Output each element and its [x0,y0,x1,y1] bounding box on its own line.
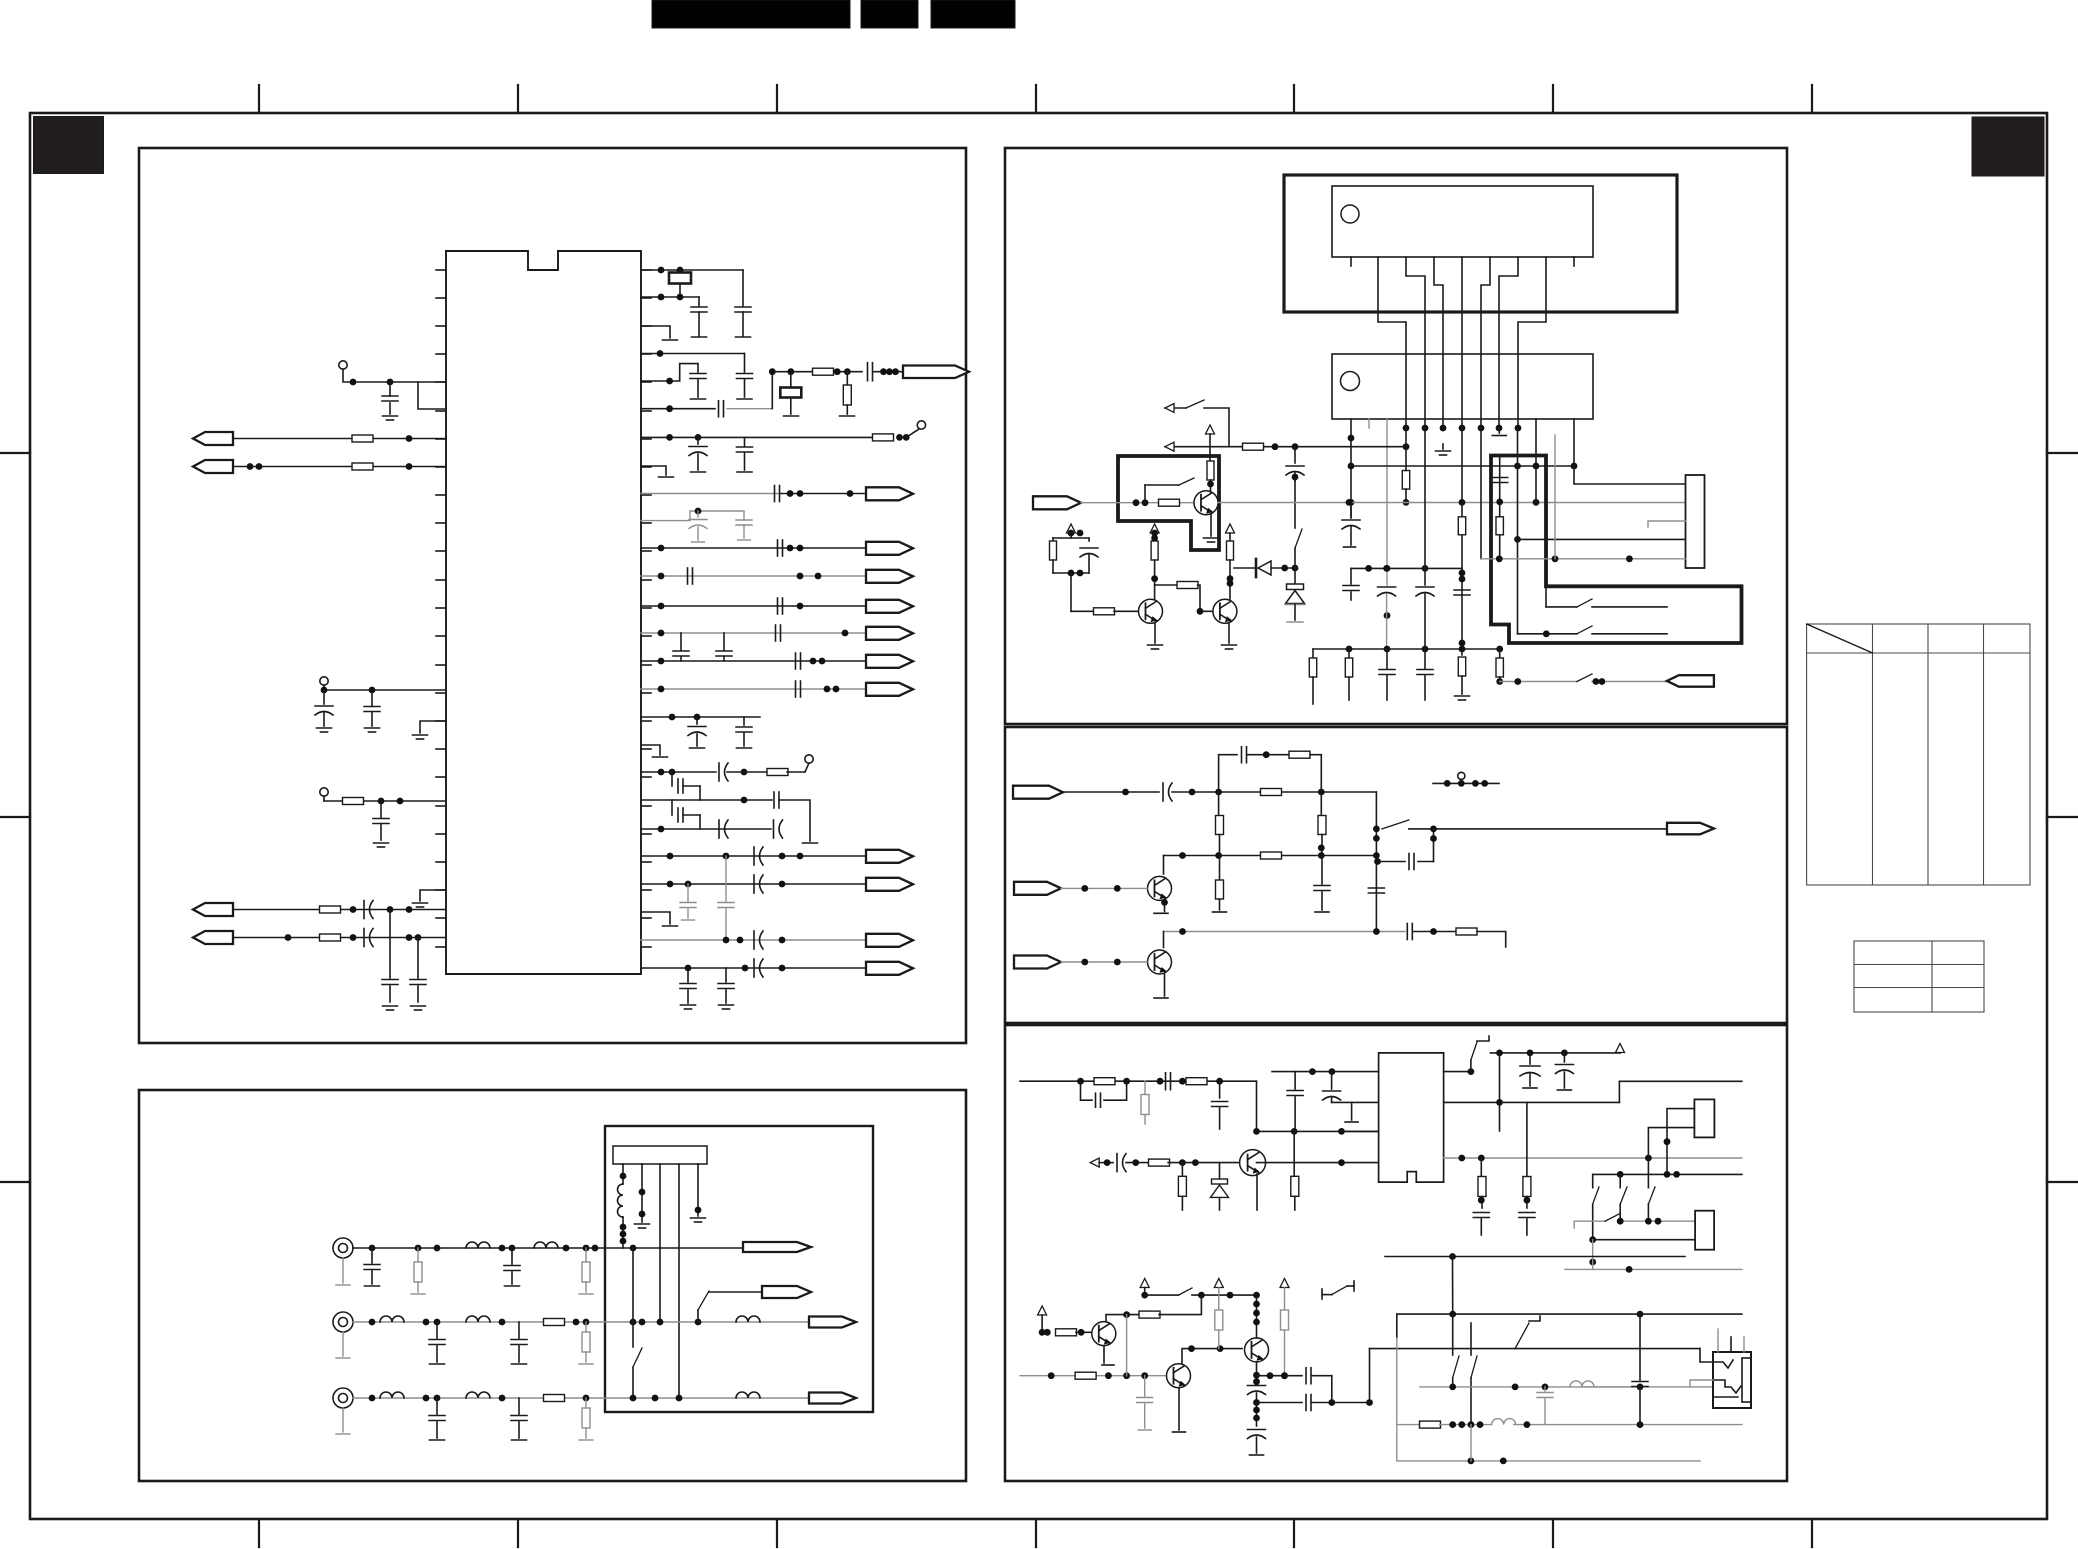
wire CN101 to IC [233,438,446,440]
vertical x1331 [1331,1376,1333,1403]
wire J2 row4 [1518,538,1686,540]
J5 contact zigzag 2 [1713,1380,1741,1393]
supply arrow A3 [1150,524,1159,533]
wire pin row y661 [641,660,866,662]
wire pin4 osc2 [641,353,745,355]
revision table diagonal [1807,624,1873,653]
capacitor C111 [744,354,746,373]
header connector J1 [613,1146,707,1164]
capacitor C503 [1219,1081,1221,1098]
ground U3 pin6 stub [1442,444,1444,449]
capacitor C107 [382,979,398,981]
schematic box right-bottom (regulator / headphone) [1005,1025,1787,1481]
capacitor C127 inter-row [723,633,725,650]
switch S303 vertical [1294,481,1296,528]
wire pin row y689 [641,688,866,690]
wire J3 in1 [1667,1109,1694,1175]
rail y1424 [1397,1424,1420,1426]
inductor L6 row2 out [736,1316,760,1322]
capacitor C304 [1350,568,1352,584]
RCA jack CV2 [333,1312,353,1332]
frame tick top x777 [776,85,778,113]
ground C202 [505,1285,520,1287]
vertical 1470 bottom [1470,1425,1472,1461]
wire Q501 emitter [1256,1174,1258,1210]
connector CN1010 [866,627,913,640]
wire Q402 emitter [1164,974,1166,996]
capacitor C121 series [687,568,689,584]
capacitor C509 [1473,1212,1489,1214]
ground C109 [692,336,707,338]
resistor R404 [1320,792,1322,816]
capacitor C142 [687,968,689,982]
ground R406 [1213,911,1227,913]
U2 pin wire 3 [1406,257,1425,428]
capacitor C403 [1321,856,1323,885]
capacitor C114 series [867,363,869,381]
capacitor C515 series [1305,1395,1307,1411]
wire U4 left pin3 [1342,1130,1379,1132]
U2 pin wire 2 [1378,257,1406,428]
inductor L7 [380,1392,404,1398]
ground R407 [1498,948,1513,950]
wire pin ground stub [420,721,446,733]
capacitor C108 [410,979,426,981]
capacitor C120 series [777,540,779,556]
supply arrow A9 [1280,1279,1289,1288]
capacitor C307 [1454,589,1470,591]
U2 pin stub right [1573,257,1575,266]
supply arrow A8 [1214,1279,1223,1288]
wire CN301 to Q301 [1081,502,1194,504]
IC U3 driver [1332,354,1593,419]
U3 pin 3 wire [1386,419,1388,585]
wire Q504 emitter chain [1256,1362,1258,1382]
U2 pin stub left [1350,257,1352,266]
wire A6 stem [1041,1315,1043,1332]
ground C142 [681,1004,696,1006]
ground C128 [690,747,705,749]
resistor R103 [343,798,364,805]
ground C129 [737,747,752,749]
wire pin7 row [641,436,873,438]
crystal X1 [679,270,681,273]
wire node up [771,372,773,409]
capacitor C406 series [1406,924,1408,940]
resistor R313 [1348,649,1350,658]
wire 1555 column [1554,435,1556,559]
RCA jack CV1 [333,1238,353,1258]
connector CN104 (audio in R) [193,931,233,944]
wire output row D [772,371,862,373]
resistor R202 [585,1248,587,1262]
capacitor C205 [436,1398,438,1414]
inductor L3 [534,1242,558,1248]
resistor R308 [1229,533,1231,541]
switch S305 row [1545,586,1547,607]
resistor R305 series [1071,610,1094,612]
ground CV1 [342,1258,344,1283]
wire CN102 to IC [233,466,446,468]
U2 pin wire 7 [1499,257,1518,428]
resistor R304 [1050,541,1057,560]
capacitor C137 series electrolytic [753,875,755,893]
resistor R204 [585,1322,587,1332]
capacitor C204 [518,1322,520,1338]
collector rail [1257,1130,1379,1132]
ground Q402 [1154,997,1168,999]
inductor L1 vertical [618,1184,624,1217]
wire row4 [1164,931,1406,933]
frame tick right y817 [2047,816,2077,818]
resistor R508 [1526,1102,1528,1176]
capacitor C510 [1519,1212,1535,1214]
ground C403 [1315,911,1329,913]
bottom rail y1461 [1397,1460,1700,1462]
connector CN102 (input) [193,460,233,473]
rail diag to switch [1514,1348,1516,1350]
wire row3 [353,1397,809,1399]
switch S506 vertical [1452,1314,1454,1355]
resistor R205 series [544,1395,565,1402]
frame tick bottom x777 [776,1519,778,1547]
resistor R407 [1456,928,1477,935]
wire C406 to R407 [1413,931,1456,933]
capacitor C136 series electrolytic [753,847,755,865]
transistor Q402 [1148,950,1172,974]
capacitor C404 link [1433,829,1435,862]
long rail y1348 [1370,1348,1516,1350]
U3 index circle [1341,372,1360,391]
frame tick bottom x518 [517,1519,519,1547]
capacitor C105 series electrolytic [363,901,365,919]
capacitor C506 electrolytic [1331,1072,1333,1089]
ground pin21 [413,902,428,904]
highlight polygon H1 (thick outline) [1118,456,1219,550]
wire J2 row2 elbow [1535,466,1537,502]
wire emitter row [1257,1375,1303,1377]
capacitor C119 [743,511,745,519]
test link row [1433,782,1499,784]
ground C103 [365,727,380,729]
ground C139 [682,919,695,921]
connector CN116 [866,962,913,975]
resistor R310 [1458,517,1465,535]
resistor R301 [1243,443,1264,450]
ground C143 [719,1004,734,1006]
wire RC pair top [1070,533,1072,538]
wire A7 row [1144,1288,1146,1296]
switch S202 row1-row3 link [632,1248,634,1347]
wire J4 in2 [1593,1239,1695,1241]
resistor R505 [1181,1163,1183,1177]
resistor R104 [320,906,341,913]
connector CN302 (line out) [1667,675,1714,687]
resistor R303 [1209,456,1211,461]
U3 pin wire to rail 1536 [1535,419,1537,466]
wire pin1 crystal net [641,269,743,271]
resistor R507 [1480,1158,1482,1177]
schematic box left-bottom (AV input filters) [139,1090,966,1481]
wire vertical x726 [725,856,727,901]
frame tick bottom x259 [258,1519,260,1547]
wire pin23 row out [641,883,866,885]
ground Q401 [1154,912,1168,914]
wire pin18 gnd stub [641,745,660,755]
ground C511 [1138,1429,1151,1431]
wire C107 feed [389,910,391,979]
headphone jack J5 [1713,1352,1751,1408]
wire pin5 osc2 [641,364,698,381]
capacitor C115 electrolytic [697,437,699,444]
wire pin21 ground stub [420,890,446,901]
wire row y568 [1351,567,1462,569]
resistor R101 [352,435,373,442]
RCA jack CV3 [333,1388,353,1408]
wire down to R305 [1070,573,1072,611]
wire C505 top [1272,1071,1312,1073]
wire pin25 row out [641,939,866,941]
ground R201 [411,1293,425,1295]
ground C508 [1557,1089,1571,1091]
capacitor C122 series [777,598,779,614]
wire gnd branch [1573,1221,1575,1228]
wire Q301 emitter [1210,512,1212,536]
resistor R405 series [1261,852,1282,859]
wire pin22 row out [641,855,866,857]
wire Q503 emitter [1178,1388,1180,1430]
supply rail y1053 [1490,1052,1620,1054]
wire pin3 ground [641,326,670,338]
wire step to pin9 [418,382,446,409]
switch S401 [1382,820,1409,829]
vertical link x1126 [1126,1315,1128,1376]
capacitor C504 series electrolytic [1116,1154,1118,1172]
J1 pin2 wire [641,1164,643,1222]
capacitor C402 series [1241,747,1243,763]
wire R514 right [1440,1424,1492,1426]
wire to CN302 [1500,681,1577,683]
rail y1314 [1397,1313,1742,1315]
signal arrow in [1090,1158,1099,1167]
wire pin10 bypass net [641,511,744,521]
wire CN104 to IC [233,937,446,939]
resistor R201 [417,1248,419,1262]
inner shield box [605,1126,873,1412]
resistor R306 [1154,533,1156,541]
feedback loop top wire [1219,755,1237,792]
IC U1 right pin stubs [641,270,651,947]
J5 contact zigzag 1 [1713,1360,1733,1368]
terminal TP5 [805,755,813,763]
wire J2 gnd stub [1648,521,1686,527]
inductor L4 [380,1316,404,1322]
connector CN201 (video out) [743,1242,811,1252]
supply arrow A1 [1206,425,1215,434]
wire L502 right [1514,1424,1742,1426]
transistor Q303 [1213,599,1237,623]
wire pin24 gnd stub [641,912,670,924]
resistor R512 [1218,1288,1220,1311]
inductor L2 [466,1242,490,1248]
ground Q303 [1222,644,1237,646]
wire S504 on [1192,1294,1257,1296]
ground Q503 [1173,1431,1186,1433]
ground Q501 [1250,1211,1265,1213]
capacitor C143 [725,968,727,982]
ground C111 [737,398,752,400]
frame corner square top-right [1972,117,2044,176]
capacitor C507 electrolytic [1529,1053,1531,1064]
connector CN1012 [866,683,913,696]
U2 pin wire 4 [1434,257,1443,428]
wire arrow to cap [1099,1162,1113,1164]
wire U4 left pin1 [1311,1071,1379,1073]
ground pin8 [659,476,674,478]
transistor Q401 [1148,876,1172,900]
IC U2 power amp [1332,186,1593,257]
ground C110 [736,336,751,338]
supply arrow A7 [1140,1279,1149,1288]
small table [1854,941,1984,1012]
resistor R309 [1402,471,1409,490]
supply arrow A6 [1038,1306,1047,1315]
wire Q503 collector [1182,1349,1242,1363]
wire C514 right [1312,1375,1332,1377]
switch S201 to CN202 [697,1310,699,1322]
capacitor C206 [518,1398,520,1414]
capacitor C124 series [795,653,797,669]
J5 contact 3 [1713,1396,1738,1398]
J1 pin1 wire to row1 [622,1217,624,1248]
capacitor C201 [371,1248,373,1263]
switch S301 top [1165,407,1186,409]
wire C113 to node [727,408,772,410]
ground C119 [738,539,751,541]
resistor R314 [1499,649,1501,658]
RC pair bottom [1052,560,1054,573]
wire Q401 collector [1163,856,1165,875]
zener D302 [1294,568,1296,584]
ground C203 [430,1363,445,1365]
wire R401 down [1310,755,1321,792]
U3 pin 1 wire [1350,419,1352,518]
terminal TP4 [917,421,925,429]
supply arrow A5 [1616,1044,1625,1053]
rail y1102 [1444,1101,1620,1103]
connector CN107 [866,542,913,555]
IC U4 regulator (with bottom notch) [1379,1053,1444,1182]
resistor R401 [1289,751,1310,758]
resistor R105 [320,934,341,941]
capacitor C113 series [718,401,720,417]
wire TP3 to pin [323,796,325,801]
wire 1462 rail [1461,428,1463,655]
wire A5 stem [1619,1052,1621,1054]
frame tick top x1812 [1811,85,1813,113]
U2 pin wire 5 [1461,257,1463,428]
wire pin19 row [641,771,716,773]
transistor Q501 [1240,1150,1266,1176]
rail y466 [1351,465,1574,467]
U3 pin stub gray [1368,419,1370,428]
capacitor C517 [1639,1314,1641,1380]
ground C107 [383,1005,398,1007]
schematic box right-top (audio module) [1005,148,1787,724]
wire S304 to CN302 [1592,681,1667,683]
J5 pin stubs top [1717,1329,1719,1352]
wire CN404 to Q402 [1061,961,1147,963]
wire pin2 [641,296,699,298]
supply arrow A2 [1067,524,1076,533]
wire C401 to node [1172,791,1376,793]
U2 pin wire 6 [1481,257,1490,428]
wire to TP4 [906,429,919,437]
resistor R107 [846,372,848,386]
switch S502 vertical [1619,1174,1621,1187]
J1 pin4 wire [678,1164,680,1398]
gray bus y502 [1218,502,1685,504]
wire R510 to node [1159,1295,1201,1315]
resistor R109 [727,771,768,773]
wire A1 stem [1209,434,1211,456]
capacitor C306 electrolytic [1416,586,1434,588]
resistor R511 series [1075,1372,1096,1379]
J1 pin1 wire [622,1164,624,1184]
transistor Q503 [1167,1364,1191,1388]
capacitor C405 [1368,887,1384,889]
wire C515 right [1312,1402,1370,1404]
zener D501 [1219,1163,1221,1179]
capacitor C117 series [774,486,776,502]
wire pin17 bypass [641,716,760,718]
capacitor C508 electrolytic [1563,1053,1565,1062]
ground CV3 [342,1408,344,1432]
wire row3 [1164,855,1377,857]
wire row1 [353,1247,743,1249]
switch S505 relay [1332,1286,1347,1295]
wire pin6 to coupling [641,408,715,410]
ground C206 [512,1439,527,1441]
connector CN101 (input) [193,432,233,445]
capacitor C133 bridge [671,800,673,815]
capacitor C130 series electrolytic [718,763,720,781]
inductor L5 [466,1316,490,1322]
wire L501 right [1582,1386,1640,1388]
revision table (large) [1807,624,2030,1012]
wire S301 to node [1204,408,1229,447]
capacitor C139 [680,902,696,904]
switch S503 vertical [1647,1158,1649,1188]
terminal TP401 [1458,772,1465,779]
wire into J5 lower [1690,1380,1713,1387]
resistor R311 [1458,657,1465,676]
J1 pin3 wire [659,1164,661,1322]
step rail to right [1619,1081,1742,1102]
capacitor C203 [436,1322,438,1338]
ground C116 [737,471,752,473]
resistor R509 series [1056,1329,1077,1336]
wire pin row y606 [641,605,866,607]
ground C108 [411,1005,426,1007]
U3 pin joints row [1403,425,1522,432]
transistor Q302 [1139,599,1163,623]
connector CN105 (output) [903,366,969,379]
wire 1499 column [1499,456,1501,559]
ground R311 [1455,695,1470,697]
module box M1 (thick) [1284,175,1677,312]
wire C504 to R504 [1126,1162,1150,1164]
